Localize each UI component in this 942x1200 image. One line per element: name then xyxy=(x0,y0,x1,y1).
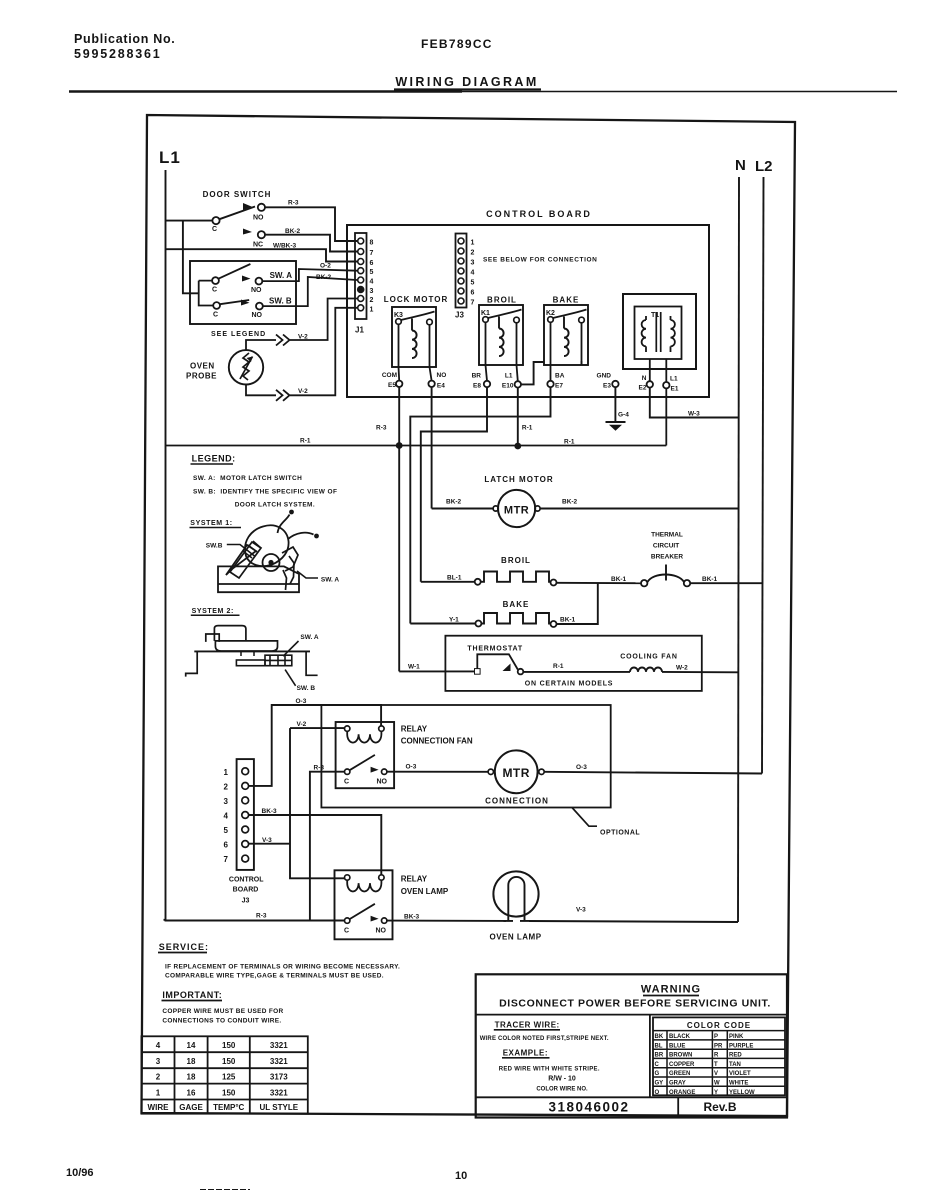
svg-text:T1: T1 xyxy=(651,312,659,319)
switch SW.A: arm xyxy=(219,264,251,279)
svg-text:NO: NO xyxy=(252,312,263,319)
color code table xyxy=(653,1017,785,1095)
svg-text:GRAY: GRAY xyxy=(669,1081,686,1087)
wire R-3 door NO to J1 pin 8 xyxy=(265,207,357,241)
switch door NO: NO contact xyxy=(253,204,265,222)
svg-text:BLUE: BLUE xyxy=(669,1043,685,1049)
svg-text:PINK: PINK xyxy=(729,1034,744,1040)
svg-text:G: G xyxy=(655,1071,660,1077)
svg-text:DOOR LATCH SYSTEM.: DOOR LATCH SYSTEM. xyxy=(235,502,315,509)
svg-text:V-3: V-3 xyxy=(576,907,586,914)
svg-text:W-2: W-2 xyxy=(676,665,688,672)
switch door NO: common terminal xyxy=(212,217,220,233)
svg-text:CONNECTION FAN: CONNECTION FAN xyxy=(401,737,473,746)
thermostat switch xyxy=(475,654,524,674)
svg-text:10/96: 10/96 xyxy=(66,1167,94,1179)
wire E7 to bake element feed xyxy=(410,387,550,623)
svg-text:E2: E2 xyxy=(639,385,647,392)
svg-text:NC: NC xyxy=(253,242,263,249)
svg-text:6: 6 xyxy=(370,260,374,267)
svg-text:150: 150 xyxy=(222,1089,236,1098)
switch door NO: arm xyxy=(219,207,255,220)
terminal NO E4 xyxy=(428,372,446,390)
svg-text:BREAKER: BREAKER xyxy=(651,554,683,561)
svg-text:R-3: R-3 xyxy=(314,765,325,772)
heading EXAMPLE xyxy=(502,1049,550,1058)
svg-text:1: 1 xyxy=(370,306,374,313)
terminal L1 E10 xyxy=(502,373,521,390)
box: see-legend latch switches xyxy=(190,261,296,324)
J3 harness pin numbers 1-7 xyxy=(224,768,229,864)
switch SW.A: common terminal xyxy=(212,277,219,293)
wire W-2 cooling fan to N xyxy=(662,671,738,673)
wire Y-1 bake feed xyxy=(410,623,475,625)
svg-text:L1: L1 xyxy=(159,148,181,167)
svg-text:BK-1: BK-1 xyxy=(611,576,627,583)
wire V-2 oven probe top to J1 pin 2 xyxy=(246,299,357,351)
svg-text:K2: K2 xyxy=(546,310,555,317)
svg-text:BK-2: BK-2 xyxy=(316,274,332,281)
svg-text:L1: L1 xyxy=(505,373,513,380)
svg-text:16: 16 xyxy=(187,1089,196,1098)
wire R-1 bus horizontal xyxy=(166,445,667,447)
wire broil to thermal breaker xyxy=(557,582,641,584)
svg-text:OPTIONAL: OPTIONAL xyxy=(600,830,640,837)
wire table row 2 xyxy=(156,1073,288,1082)
svg-text:2: 2 xyxy=(156,1073,161,1082)
svg-text:SEE LEGEND: SEE LEGEND xyxy=(211,331,266,338)
oven probe label xyxy=(186,362,217,381)
heading SYSTEM 2 xyxy=(191,608,240,616)
label RELAY OVEN LAMP xyxy=(401,875,449,897)
sketch system 1 latch mechanism xyxy=(218,510,319,593)
svg-text:6: 6 xyxy=(224,841,229,850)
svg-text:8: 8 xyxy=(370,240,374,247)
wire W-1 feed to thermostat xyxy=(399,670,474,672)
svg-text:C: C xyxy=(344,928,349,935)
wire bake to breaker junction xyxy=(557,583,598,624)
svg-text:E1: E1 xyxy=(671,386,679,393)
connector J3 (board side) xyxy=(456,234,467,308)
svg-text:BK: BK xyxy=(655,1034,664,1040)
svg-text:MTR: MTR xyxy=(502,766,530,780)
svg-text:5: 5 xyxy=(370,269,374,276)
svg-text:COPPER WIRE MUST BE USED FOR: COPPER WIRE MUST BE USED FOR xyxy=(162,1008,283,1015)
svg-text:GND: GND xyxy=(597,373,612,380)
oven probe sensor symbol xyxy=(229,350,263,384)
wire stub relay K3 pins to terminals xyxy=(399,367,432,381)
svg-text:3321: 3321 xyxy=(270,1057,288,1066)
inductor cooling fan motor winding xyxy=(630,668,662,672)
svg-text:COLOR WIRE NO.: COLOR WIRE NO. xyxy=(536,1087,588,1093)
svg-text:PR: PR xyxy=(714,1043,723,1049)
wire E10 to bake relay box xyxy=(521,362,544,384)
svg-text:UL STYLE: UL STYLE xyxy=(260,1103,299,1112)
svg-text:V: V xyxy=(714,1071,718,1077)
svg-text:PURPLE: PURPLE xyxy=(729,1043,753,1049)
svg-text:TEMP°C: TEMP°C xyxy=(213,1103,244,1112)
label CONTROL BOARD J3 xyxy=(229,877,264,905)
svg-text:BROWN: BROWN xyxy=(669,1053,692,1059)
svg-text:CONTROL BOARD: CONTROL BOARD xyxy=(486,209,592,219)
switch door NC: travel arrow xyxy=(243,229,252,235)
svg-text:E3: E3 xyxy=(603,383,611,390)
svg-text:RELAY: RELAY xyxy=(401,725,428,734)
lamp oven xyxy=(493,871,538,921)
svg-text:3: 3 xyxy=(156,1057,161,1066)
svg-text:O-2: O-2 xyxy=(320,263,331,270)
svg-text:150: 150 xyxy=(222,1057,236,1066)
svg-text:R-1: R-1 xyxy=(300,438,311,445)
svg-text:DOOR SWITCH: DOOR SWITCH xyxy=(203,190,272,199)
pointer SW.B system 2 xyxy=(285,670,296,686)
svg-text:T: T xyxy=(714,1062,718,1068)
wire V-3 oven lamp to N xyxy=(529,921,738,922)
wire stub relay K1 pins to terminals xyxy=(486,365,518,381)
svg-text:E7: E7 xyxy=(555,383,563,390)
svg-text:CONNECTION: CONNECTION xyxy=(485,797,549,806)
box optional convection group xyxy=(321,705,610,808)
warning box xyxy=(476,974,787,1117)
svg-text:CONNECTIONS TO CONDUIT WIRE.: CONNECTIONS TO CONDUIT WIRE. xyxy=(162,1017,281,1024)
svg-text:6: 6 xyxy=(471,290,475,297)
wire table row 4 xyxy=(156,1041,288,1050)
svg-text:SW. B: SW. B xyxy=(297,685,316,692)
svg-text:RED WIRE WITH WHITE STRIPE.: RED WIRE WITH WHITE STRIPE. xyxy=(499,1067,600,1073)
wire thermostat to cooling fan xyxy=(523,671,630,673)
svg-text:BAKE: BAKE xyxy=(503,600,530,609)
svg-text:SYSTEM 2:: SYSTEM 2: xyxy=(192,608,234,615)
svg-text:NO: NO xyxy=(376,928,387,935)
wire branch from door common down to SW.A/SW.B commons xyxy=(183,221,199,294)
svg-text:YELLOW: YELLOW xyxy=(729,1090,755,1096)
wire BK-3 lamp relay NO to oven lamp xyxy=(387,920,506,922)
heating element bake xyxy=(475,613,556,627)
wire BK-2 SW.B NO to J1 pin 4 xyxy=(263,277,357,306)
svg-text:W/BK-3: W/BK-3 xyxy=(273,243,296,250)
wire L1 to door switch common xyxy=(166,220,213,222)
wire BL-1 broil feed xyxy=(421,581,475,583)
svg-text:3: 3 xyxy=(224,797,229,806)
pointer SW.A system 1 xyxy=(297,571,318,578)
svg-text:5995288361: 5995288361 xyxy=(74,47,162,61)
svg-text:125: 125 xyxy=(222,1073,236,1082)
svg-text:2: 2 xyxy=(224,783,229,792)
control board outline xyxy=(347,225,709,397)
svg-text:C: C xyxy=(213,312,218,319)
switch door NO: travel arrow xyxy=(243,203,252,210)
svg-text:4: 4 xyxy=(224,812,229,821)
wire R-3 from L1 to lamp relay common xyxy=(166,919,345,922)
legend heading xyxy=(191,454,236,465)
wire table header row xyxy=(148,1103,299,1112)
svg-text:SW. B: SW. B xyxy=(269,297,292,306)
wire BK-3 J3 pin4 to lamp relay coil xyxy=(249,815,381,875)
svg-text:J3: J3 xyxy=(455,311,464,320)
svg-text:N: N xyxy=(735,157,746,174)
svg-text:MTR: MTR xyxy=(504,505,529,517)
svg-text:1: 1 xyxy=(471,240,475,247)
svg-text:R/W - 10: R/W - 10 xyxy=(548,1076,576,1083)
connector chevrons bottom probe wire xyxy=(276,390,290,401)
svg-text:10: 10 xyxy=(455,1170,467,1182)
wire O-2 SW.A NO to J1 pin 5 xyxy=(262,269,357,281)
svg-text:3321: 3321 xyxy=(270,1041,288,1050)
wire gauge table xyxy=(141,1036,307,1113)
wire W-3 from E2 to N xyxy=(650,388,738,418)
heading WARNING xyxy=(641,984,701,996)
svg-text:O-3: O-3 xyxy=(296,698,307,705)
svg-text:18: 18 xyxy=(187,1057,196,1066)
terminal BR E8 xyxy=(472,373,491,390)
svg-text:Y: Y xyxy=(714,1090,718,1096)
svg-text:BR: BR xyxy=(472,373,482,380)
heading IMPORTANT xyxy=(162,990,223,1001)
ground symbol G-4 xyxy=(606,422,626,431)
svg-text:3: 3 xyxy=(471,260,475,267)
svg-text:BK-3: BK-3 xyxy=(262,808,278,815)
svg-text:SW. A: SW. A xyxy=(321,577,339,584)
junction dot R-1/E5 xyxy=(396,442,403,449)
svg-text:O-3: O-3 xyxy=(406,764,417,771)
svg-text:ORANGE: ORANGE xyxy=(669,1090,695,1096)
svg-text:COPPER: COPPER xyxy=(669,1062,695,1068)
svg-text:V-2: V-2 xyxy=(298,334,308,341)
svg-text:18: 18 xyxy=(187,1073,196,1082)
svg-text:V-3: V-3 xyxy=(262,837,272,844)
svg-text:SW. A: SW. A xyxy=(300,634,318,641)
color code rows xyxy=(655,1034,756,1096)
svg-text:R-1: R-1 xyxy=(522,425,533,432)
J1 pin numbers 8-1 xyxy=(370,240,374,314)
svg-text:150: 150 xyxy=(222,1041,236,1050)
svg-text:E4: E4 xyxy=(437,383,445,390)
svg-text:WHITE: WHITE xyxy=(729,1081,748,1087)
wire E5 drop to thermostat feed xyxy=(398,387,400,671)
transformer T1 xyxy=(623,294,696,382)
svg-text:ON CERTAIN MODELS: ON CERTAIN MODELS xyxy=(525,681,614,688)
svg-text:2: 2 xyxy=(471,250,475,257)
relay oven lamp xyxy=(335,870,393,939)
svg-text:OVEN: OVEN xyxy=(190,362,215,371)
wire BK-1 breaker to L2 xyxy=(690,582,762,584)
connector J1 xyxy=(355,233,367,319)
svg-text:BOARD: BOARD xyxy=(233,887,259,894)
svg-text:Rev.B: Rev.B xyxy=(703,1100,736,1114)
svg-text:CIRCUIT: CIRCUIT xyxy=(653,543,679,550)
motor MTR latch xyxy=(493,490,540,527)
wire R-1 from E1 down to bus xyxy=(665,388,667,445)
wire V-2/V-3 J3 pin6 to relay coils xyxy=(249,728,345,878)
svg-text:COMPARABLE WIRE TYPE,GAGE & TE: COMPARABLE WIRE TYPE,GAGE & TERMINALS MU… xyxy=(165,973,384,980)
switch SW.B: NO contact xyxy=(252,303,263,319)
svg-text:CONTROL: CONTROL xyxy=(229,877,264,884)
svg-text:COM: COM xyxy=(382,372,397,379)
svg-text:LATCH MOTOR: LATCH MOTOR xyxy=(484,475,553,484)
wire stub relay K2 pins to terminal E7 xyxy=(551,361,582,381)
pointer SW.B system 1 xyxy=(227,545,255,557)
svg-text:5: 5 xyxy=(471,280,475,287)
svg-text:SW. B: IDENTIFY THE SPECIFIC: SW. B: IDENTIFY THE SPECIFIC VIEW OF xyxy=(193,488,337,495)
wire E3 to ground xyxy=(614,387,616,422)
svg-text:BR: BR xyxy=(655,1053,664,1059)
svg-text:BK-2: BK-2 xyxy=(285,228,301,235)
svg-text:V-2: V-2 xyxy=(297,721,307,728)
svg-text:RELAY: RELAY xyxy=(401,875,428,884)
svg-text:BK-2: BK-2 xyxy=(446,499,462,506)
svg-text:SW. A: SW. A xyxy=(270,271,293,280)
svg-text:TAN: TAN xyxy=(729,1062,741,1068)
svg-text:OVEN LAMP: OVEN LAMP xyxy=(401,887,449,896)
svg-text:O-3: O-3 xyxy=(576,764,587,771)
svg-text:V-2: V-2 xyxy=(298,388,308,395)
wire table row 3 xyxy=(156,1057,288,1066)
connector J3 (harness side) xyxy=(237,759,254,870)
relay K3 lock motor xyxy=(384,295,449,367)
svg-text:4: 4 xyxy=(156,1041,161,1050)
svg-text:WIRING DIAGRAM: WIRING DIAGRAM xyxy=(395,75,538,89)
pointer and label OPTIONAL xyxy=(572,808,640,837)
svg-text:WIRE: WIRE xyxy=(148,1103,170,1112)
svg-text:THERMOSTAT: THERMOSTAT xyxy=(467,646,523,653)
svg-text:J1: J1 xyxy=(355,326,364,335)
svg-text:BK-1: BK-1 xyxy=(702,576,718,583)
switch SW.B: arm xyxy=(220,300,249,304)
wire E10 drop to bus xyxy=(517,388,519,446)
svg-text:TRACER WIRE:: TRACER WIRE: xyxy=(495,1021,560,1030)
sketch system 2 latch mechanism xyxy=(186,626,318,677)
svg-text:N: N xyxy=(642,375,647,382)
svg-text:7: 7 xyxy=(224,855,229,864)
svg-text:SW. A: MOTOR LATCH SWITCH: SW. A: MOTOR LATCH SWITCH xyxy=(193,475,302,482)
svg-text:NO: NO xyxy=(377,779,388,786)
svg-text:LEGEND:: LEGEND: xyxy=(192,454,236,464)
wire L2 supply vertical xyxy=(762,177,764,774)
svg-text:BK-1: BK-1 xyxy=(560,617,576,624)
connector chevrons top probe wire xyxy=(276,335,290,346)
svg-text:L1: L1 xyxy=(670,376,678,383)
svg-text:OVEN LAMP: OVEN LAMP xyxy=(489,933,541,942)
switch SW.B: common terminal xyxy=(213,302,220,318)
svg-text:7: 7 xyxy=(471,300,475,307)
svg-text:2: 2 xyxy=(370,297,374,304)
svg-text:L2: L2 xyxy=(755,158,773,175)
svg-text:C: C xyxy=(212,287,217,294)
wire V-2 oven probe bottom to J1 pin 1 xyxy=(246,308,357,396)
svg-text:WARNING: WARNING xyxy=(641,984,701,996)
svg-text:R-3: R-3 xyxy=(256,913,267,920)
svg-text:DISCONNECT POWER BEFORE SERVIC: DISCONNECT POWER BEFORE SERVICING UNIT. xyxy=(499,998,771,1010)
svg-text:3: 3 xyxy=(370,288,374,295)
wire R-3 fan relay common xyxy=(310,772,345,921)
relay connection fan xyxy=(336,722,395,788)
box thermostat / cooling fan xyxy=(445,636,701,691)
heading TRACER WIRE xyxy=(494,1021,560,1030)
svg-text:WIRE COLOR NOTED FIRST,STRIPE: WIRE COLOR NOTED FIRST,STRIPE NEXT. xyxy=(480,1036,609,1042)
svg-text:3321: 3321 xyxy=(270,1089,288,1098)
wire E4 drop to latch motor xyxy=(431,387,433,509)
svg-text:Publication No.: Publication No. xyxy=(74,32,175,46)
svg-text:4: 4 xyxy=(471,270,475,277)
svg-text:C: C xyxy=(655,1062,660,1068)
svg-text:GREEN: GREEN xyxy=(669,1071,690,1077)
svg-text:BL: BL xyxy=(655,1043,663,1049)
wire O-3 J3 pin2 to fan relay coil xyxy=(249,705,381,786)
J3 board-side pin numbers 1-7 xyxy=(471,240,475,307)
svg-text:E8: E8 xyxy=(473,383,481,390)
svg-text:BROIL: BROIL xyxy=(487,296,517,305)
svg-text:BK-2: BK-2 xyxy=(562,499,578,506)
svg-text:1: 1 xyxy=(224,768,229,777)
svg-text:VIOLET: VIOLET xyxy=(729,1071,751,1077)
wire BK-2 lock relay NO to latch motor xyxy=(432,508,493,510)
svg-text:BROIL: BROIL xyxy=(501,556,531,565)
svg-text:O: O xyxy=(655,1090,660,1096)
svg-text:14: 14 xyxy=(187,1041,196,1050)
svg-text:Y-1: Y-1 xyxy=(449,617,459,624)
wire W/BK-3 from L1 to J1 pin 6 xyxy=(166,249,358,261)
svg-text:IMPORTANT:: IMPORTANT: xyxy=(162,990,222,1000)
pointer SW.A system 2 xyxy=(283,641,298,656)
terminal GND E3 xyxy=(597,373,619,390)
wire L1 supply vertical xyxy=(164,170,166,920)
svg-text:SYSTEM 1:: SYSTEM 1: xyxy=(190,520,232,527)
svg-text:COOLING FAN: COOLING FAN xyxy=(620,654,677,661)
heading SERVICE xyxy=(158,942,209,953)
heading SYSTEM 1 xyxy=(190,520,242,528)
svg-text:E5: E5 xyxy=(388,382,396,389)
relay K2 bake xyxy=(544,296,588,366)
svg-text:P: P xyxy=(714,1034,718,1040)
svg-text:G-4: G-4 xyxy=(618,412,629,419)
wire N supply vertical xyxy=(738,177,739,922)
header rule line xyxy=(69,90,462,93)
svg-text:1: 1 xyxy=(156,1089,161,1098)
svg-text:5: 5 xyxy=(224,826,229,835)
svg-text:R-3: R-3 xyxy=(288,200,299,207)
svg-text:W: W xyxy=(714,1081,720,1087)
wire O-3 fan relay NO to convection motor xyxy=(387,771,488,773)
wire BK-2 latch motor to N xyxy=(540,508,738,510)
switch SW.B: travel arrow xyxy=(241,300,250,306)
svg-text:NO: NO xyxy=(251,287,262,294)
svg-text:R-1: R-1 xyxy=(553,663,564,670)
svg-text:GAGE: GAGE xyxy=(179,1103,203,1112)
relay K1 broil xyxy=(479,296,523,366)
footer small mark xyxy=(200,1189,250,1191)
svg-text:LOCK MOTOR: LOCK MOTOR xyxy=(384,295,449,304)
svg-text:COLOR CODE: COLOR CODE xyxy=(687,1021,751,1030)
svg-text:EXAMPLE:: EXAMPLE: xyxy=(503,1049,548,1058)
wire O-3 convection motor to L2 xyxy=(544,772,762,774)
switch SW.A: travel arrow xyxy=(242,276,251,282)
junction dot R-1/E10 xyxy=(514,443,521,450)
svg-text:3173: 3173 xyxy=(270,1073,288,1082)
svg-text:BK-3: BK-3 xyxy=(404,914,420,921)
main diagram border frame xyxy=(142,115,796,1116)
heating element broil xyxy=(475,572,557,586)
terminal BA E7 xyxy=(547,373,564,390)
terminal L1 E1 xyxy=(663,376,679,393)
svg-text:7: 7 xyxy=(370,250,374,257)
svg-text:R-1: R-1 xyxy=(564,439,575,446)
motor MTR convection xyxy=(488,750,544,793)
terminal N E2 xyxy=(639,375,653,392)
svg-text:C: C xyxy=(212,226,217,233)
svg-text:PROBE: PROBE xyxy=(186,372,217,381)
label THERMAL CIRCUIT BREAKER xyxy=(651,532,683,561)
switch door NC contact xyxy=(253,231,265,248)
